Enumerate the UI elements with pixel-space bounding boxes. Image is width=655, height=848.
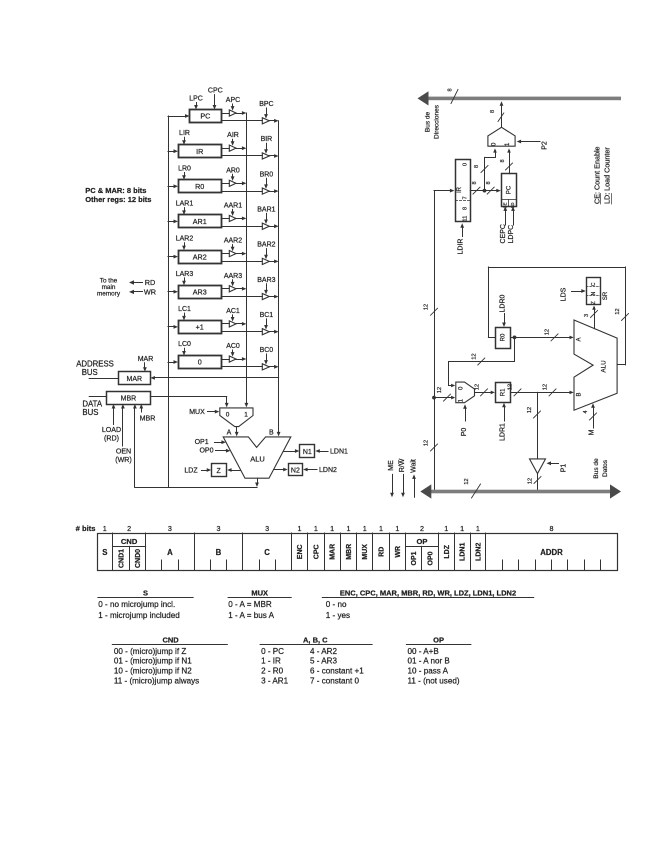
svg-text:1: 1 [347, 524, 351, 533]
signal OEN (WR) [115, 404, 132, 464]
wire ALU to N1 [283, 449, 299, 453]
load signal LDIR [458, 223, 465, 254]
svg-text:N2: N2 [291, 468, 300, 475]
field ENC [297, 544, 304, 559]
field ADDR [540, 548, 563, 557]
svg-text:S: S [143, 588, 148, 597]
label B input [269, 430, 274, 437]
svg-text:MUX: MUX [362, 544, 369, 560]
note to the main memory [97, 277, 121, 297]
svg-text:0 - no microjump incl.: 0 - no microjump incl. [98, 600, 175, 609]
tri-state buffer APC (register PC to bus A) [229, 110, 236, 116]
select signal P0 [461, 404, 468, 436]
svg-text:A: A [167, 548, 173, 557]
svg-text:1: 1 [103, 524, 107, 533]
enable signal AR0 [226, 167, 240, 181]
svg-text:LDR0: LDR0 [500, 294, 507, 312]
svg-text:MUX: MUX [251, 588, 268, 597]
svg-text:10 - pass A: 10 - pass A [408, 667, 449, 676]
tri-state buffer BC0 (register 0 to bus B) [262, 364, 269, 370]
wire MBR to data bus [89, 396, 106, 398]
tri-state buffer AC0 (register 0 to bus A) [229, 356, 236, 362]
svg-text:R0: R0 [195, 182, 204, 191]
svg-text:LDIR: LDIR [458, 239, 465, 255]
signal Wait [410, 459, 417, 497]
ALU right [574, 320, 617, 410]
svg-text:LAR1: LAR1 [176, 200, 194, 207]
wire data bus to IR (vertical 12-bit) [424, 191, 438, 490]
load signal MAR [138, 356, 154, 372]
signal OP1 [195, 439, 226, 446]
tri-state buffer BPC (register PC to bus B) [262, 118, 269, 124]
bus Bus de Datos [420, 478, 621, 498]
node data line to P0 mux junction [432, 396, 436, 400]
svg-text:(RD): (RD) [104, 435, 119, 443]
field OP1 [411, 551, 418, 565]
ALU [223, 437, 291, 478]
svg-text:LDN1: LDN1 [330, 449, 348, 456]
enable signal APC [226, 97, 240, 111]
svg-text:LDN1: LDN1 [460, 543, 467, 561]
signal LDN1 [315, 449, 348, 456]
register AR1 [179, 215, 222, 228]
svg-text:CE: Count EnableLD: Load Count: CE: Count EnableLD: Load Counter [592, 146, 611, 204]
load signal LIR [179, 130, 190, 145]
enable signal BAR3 [257, 277, 275, 295]
field divider RD/WR [389, 533, 391, 571]
wire register R0 to buffer AR0 [221, 183, 229, 185]
wire input to register AR1 [168, 220, 178, 224]
load signal LDR0 [500, 294, 507, 327]
svg-text:(WR): (WR) [115, 456, 132, 464]
field divider LDN2/ADDR [485, 533, 487, 571]
wire register IR to buffer AIR [221, 148, 229, 150]
register R0 [496, 328, 511, 349]
wire R1 line to P1 buffer [527, 392, 541, 459]
signal OP0 [199, 447, 230, 454]
svg-text:RD: RD [145, 278, 156, 287]
svg-text:LC0: LC0 [178, 341, 191, 348]
svg-text:7: 7 [463, 196, 469, 199]
signal LDZ [184, 468, 211, 475]
svg-text:00 - (micro)jump if Z: 00 - (micro)jump if Z [114, 647, 186, 656]
bit count for CND [127, 524, 131, 533]
svg-text:BC1: BC1 [260, 312, 274, 319]
svg-text:A, B, C: A, B, C [303, 635, 328, 644]
svg-text:LPC: LPC [189, 96, 203, 103]
svg-text:PC & MAR: 8 bits: PC & MAR: 8 bits [85, 186, 146, 195]
load signal LAR3 [176, 271, 194, 285]
wire buffer AC1 to bus A [236, 322, 246, 326]
svg-text:BC0: BC0 [260, 347, 274, 354]
svg-text:MAR: MAR [330, 544, 337, 560]
svg-text:OP1: OP1 [195, 439, 209, 446]
signal M (ALU operation select) [583, 403, 597, 435]
svg-text:8: 8 [500, 159, 506, 162]
field RD [379, 547, 386, 557]
load signal LC0 [178, 341, 191, 356]
svg-text:OEN: OEN [116, 448, 131, 456]
svg-text:BAR3: BAR3 [257, 277, 275, 284]
field S [102, 548, 107, 557]
enable signal AAR3 [224, 273, 242, 287]
legend CE LD meaning [592, 146, 611, 204]
wire R0 output to P0 mux input 0 [449, 337, 515, 387]
bit count for S [103, 524, 107, 533]
bus Bus de Direcciones [418, 88, 622, 105]
svg-text:R0: R0 [500, 333, 506, 341]
label Bus de Datos [593, 458, 609, 479]
wire data bus to IR [434, 189, 454, 193]
field WR [395, 546, 402, 558]
field group header CND [113, 537, 146, 547]
svg-text:AAR2: AAR2 [224, 238, 242, 245]
svg-text:8: 8 [463, 207, 469, 210]
svg-text:LR0: LR0 [178, 165, 191, 172]
wire input to register PC [168, 114, 190, 118]
svg-text:AIR: AIR [227, 132, 239, 139]
svg-text:B: B [576, 392, 582, 396]
select signal P2 [517, 140, 549, 150]
tri-state buffer AAR3 (register AR3 to bus A) [229, 286, 236, 292]
field divider MUX/RD [372, 533, 374, 571]
svg-text:BPC: BPC [259, 101, 273, 108]
status register SR (Z N C) [586, 278, 609, 305]
svg-text:Other regs: 12 bits: Other regs: 12 bits [85, 195, 151, 204]
svg-text:MBR: MBR [346, 544, 353, 560]
tri-state buffer BAR3 (register AR3 to bus B) [262, 293, 269, 299]
wire register PC to buffer BPC [221, 120, 262, 122]
enable signal AAR1 [224, 202, 242, 216]
svg-text:M: M [589, 429, 596, 435]
label Bus de Direcciones [425, 104, 441, 139]
field divider ENC/CPC [307, 533, 309, 571]
svg-text:1: 1 [314, 524, 318, 533]
svg-text:LAR2: LAR2 [176, 236, 194, 243]
wire register 0 to buffer BC0 [221, 366, 262, 368]
tri-state buffer AAR2 (register AR2 to bus A) [229, 251, 236, 257]
svg-text:12: 12 [475, 384, 481, 390]
wire input to register 0 [168, 360, 178, 364]
signal ME [388, 460, 395, 497]
svg-text:IR: IR [196, 147, 203, 156]
svg-text:ENC: ENC [297, 544, 304, 559]
svg-text:0 - A = MBR: 0 - A = MBR [228, 600, 272, 609]
field divider A/B [194, 533, 196, 571]
load signal LDR1 [500, 403, 507, 441]
field divider OP1/OP0 [421, 546, 423, 570]
enable signal AC1 [226, 308, 240, 322]
wire P1 buffer to data bus [528, 474, 542, 490]
svg-text:LD: LD [510, 203, 515, 209]
bit count for MAR [330, 524, 334, 533]
label DATA BUS [82, 400, 102, 418]
wire buffer AAR2 to bus A [236, 252, 246, 256]
svg-text:BAR1: BAR1 [257, 207, 275, 214]
svg-text:S: S [102, 548, 107, 557]
field divider B/C [242, 533, 244, 571]
bit count for MUX [363, 524, 367, 533]
svg-text:0: 0 [198, 358, 202, 367]
field divider LDN1/LDN2 [470, 533, 472, 571]
svg-text:CND0: CND0 [135, 549, 142, 568]
svg-text:1: 1 [298, 524, 302, 533]
wire input to register AR2 [168, 255, 178, 259]
bit count for ENC [298, 524, 302, 533]
wire buffer BPC to bus B [269, 119, 278, 123]
svg-text:Wait: Wait [410, 459, 417, 473]
svg-text:4: 4 [583, 410, 589, 413]
wire R0 to ALU input A [515, 329, 574, 341]
wire P0 mux to R1 [475, 384, 495, 396]
wire buffer BIR to bus B [269, 154, 278, 158]
wire buffer BAR3 to bus B [269, 295, 278, 299]
tri-state buffer BAR2 (register AR2 to bus B) [262, 258, 269, 264]
svg-text:N: N [591, 291, 597, 295]
svg-text:R1: R1 [500, 388, 506, 396]
register R1 [496, 383, 511, 403]
svg-text:B: B [216, 548, 222, 557]
svg-text:LDS: LDS [561, 287, 568, 301]
svg-text:12: 12 [527, 407, 533, 413]
enable signal BIR [261, 136, 273, 154]
legend MUX [228, 588, 292, 620]
svg-text:7 - constant 0: 7 - constant 0 [310, 677, 360, 686]
svg-text:1 - microjump included: 1 - microjump included [98, 611, 179, 620]
field CND1 [118, 549, 125, 568]
svg-text:ADDR: ADDR [540, 548, 563, 557]
svg-text:8: 8 [472, 181, 478, 184]
wire MBR to MUX input 0 [150, 397, 228, 408]
svg-text:IR: IR [457, 186, 463, 193]
svg-text:memory: memory [97, 291, 121, 298]
svg-text:AR3: AR3 [193, 287, 207, 296]
field divider OP0/LDZ [438, 533, 440, 571]
svg-text:OP0: OP0 [428, 551, 435, 565]
wire buffer BAR1 to bus B [269, 224, 278, 228]
field divider MAR/MBR [340, 533, 342, 571]
svg-text:5 - AR3: 5 - AR3 [310, 657, 337, 666]
svg-text:C: C [264, 548, 270, 557]
svg-text:LDN2: LDN2 [475, 543, 482, 561]
wire ALU to N2 [274, 468, 288, 472]
wire buffer AAR3 to bus A [236, 287, 246, 291]
svg-text:01 - (micro)jump if N1: 01 - (micro)jump if N1 [114, 657, 192, 666]
tri-state buffer BAR1 (register AR1 to bus B) [262, 223, 269, 229]
field MBR [346, 544, 353, 560]
wire input to register +1 [168, 325, 178, 329]
svg-text:1: 1 [395, 524, 399, 533]
wire register AR3 to buffer BAR3 [221, 296, 262, 298]
svg-text:ENC, CPC, MAR, MBR, RD, WR, LD: ENC, CPC, MAR, MBR, RD, WR, LDZ, LDN1, L… [340, 588, 516, 597]
field divider WR/OP1 [405, 533, 407, 571]
svg-text:8: 8 [486, 181, 492, 184]
wire MAR to address bus [89, 378, 118, 380]
svg-text:00 - A+B: 00 - A+B [408, 647, 439, 656]
label ADDRESS BUS [76, 360, 114, 378]
svg-text:12: 12 [424, 304, 430, 310]
wire ALU to Z [227, 468, 240, 472]
enable signal AIR [227, 132, 239, 146]
svg-text:CND: CND [121, 537, 138, 546]
svg-text:A: A [576, 337, 582, 341]
svg-text:LOAD: LOAD [102, 426, 121, 434]
field B [216, 548, 222, 557]
wire ALU flags to SR [584, 306, 598, 329]
field OP0 [428, 551, 435, 565]
svg-text:BR0: BR0 [260, 171, 274, 178]
svg-text:LDPC: LDPC [508, 225, 515, 244]
svg-text:RD: RD [379, 547, 386, 557]
svg-text:10 - (micro)jump if N2: 10 - (micro)jump if N2 [114, 667, 192, 676]
svg-text:1: 1 [379, 524, 383, 533]
enable signal BR0 [260, 171, 274, 189]
wire buffer BR0 to bus B [269, 189, 278, 193]
select signal MUX [189, 409, 219, 416]
svg-text:1: 1 [244, 411, 248, 418]
svg-text:2: 2 [420, 524, 424, 533]
multiplexer P0 mux [456, 382, 475, 403]
svg-text:AAR1: AAR1 [224, 202, 242, 209]
legend ENC CPC MAR MBR RD WR LDZ LDN1 LDN2 [322, 588, 534, 620]
svg-text:3: 3 [584, 314, 590, 317]
svg-text:1: 1 [460, 524, 464, 533]
svg-text:OP: OP [417, 537, 428, 546]
svg-text:ME: ME [388, 460, 395, 471]
svg-text:ALU: ALU [601, 360, 608, 373]
wire register AR3 to buffer AAR3 [221, 288, 229, 290]
wire MUX output A [227, 427, 239, 437]
bit count for LDN2 [476, 524, 480, 533]
wire IR to PC (low byte) [470, 181, 501, 194]
svg-text:# bits: # bits [76, 524, 96, 533]
register +1 [179, 321, 222, 334]
wire buffer AAR1 to bus A [236, 217, 246, 221]
flag register Z [212, 464, 227, 477]
wire data line to P0 mux input 1 [434, 387, 455, 401]
svg-text:4 - AR2: 4 - AR2 [310, 647, 337, 656]
bit count for OP [420, 524, 424, 533]
load signal LAR1 [176, 200, 194, 215]
svg-text:PC: PC [200, 112, 210, 121]
wire buffer AC0 to bus A [236, 357, 246, 361]
svg-text:11 - (not used): 11 - (not used) [408, 677, 460, 686]
field LDN1 [460, 543, 467, 561]
svg-text:AAR3: AAR3 [224, 273, 242, 280]
svg-text:LDN2: LDN2 [319, 467, 337, 474]
svg-text:12: 12 [472, 353, 478, 359]
signal LDPC [508, 206, 515, 243]
svg-text:P1: P1 [561, 464, 568, 473]
wire buffer BAR2 to bus B [269, 260, 278, 264]
bit count for CPC [314, 524, 318, 533]
multiplexer MUX [220, 408, 253, 427]
wire buffer AIR to bus A [236, 146, 246, 150]
bit count for LDN1 [460, 524, 464, 533]
field MUX [362, 544, 369, 560]
enable signal BC0 [260, 347, 274, 365]
enable signal BAR1 [257, 207, 275, 225]
count signal CPC [208, 88, 223, 110]
enable signal AC0 [226, 343, 240, 357]
svg-text:2 - R0: 2 - R0 [261, 667, 284, 676]
svg-text:3 - AR1: 3 - AR1 [261, 677, 288, 686]
tri-state buffer AC1 (register +1 to bus A) [229, 321, 236, 327]
svg-text:8: 8 [474, 165, 480, 168]
enable signal BPC [259, 101, 273, 119]
wire input to register AR3 [168, 290, 178, 294]
enable signal AAR2 [224, 238, 242, 252]
wire ALU output to MBR [133, 404, 137, 487]
svg-text:WR: WR [144, 288, 156, 297]
svg-text:OP1: OP1 [411, 551, 418, 565]
wire buffer BC1 to bus B [269, 330, 278, 334]
svg-text:AC1: AC1 [226, 308, 240, 315]
svg-text:0: 0 [226, 411, 230, 418]
svg-text:WR: WR [395, 546, 402, 558]
svg-text:BAR2: BAR2 [257, 242, 275, 249]
svg-text:APC: APC [226, 97, 240, 104]
wire register AR1 to buffer BAR1 [221, 226, 262, 228]
wire input to register R0 [168, 184, 178, 188]
load signal LC1 [178, 306, 191, 321]
wire R1 to ALU input B [508, 384, 574, 396]
note PC and MAR width [85, 186, 151, 204]
wire IR to P2 mux input 0 [474, 148, 497, 190]
svg-text:6 - constant +1: 6 - constant +1 [310, 667, 364, 676]
svg-text:P0: P0 [461, 428, 468, 437]
svg-text:LDZ: LDZ [184, 468, 198, 475]
svg-text:BUS: BUS [82, 408, 98, 417]
field divider CPC/MAR [324, 533, 326, 571]
wire register AR2 to buffer AAR2 [221, 253, 229, 255]
wire bus B to MAR [150, 376, 278, 380]
signal LDN2 [303, 467, 337, 474]
enable signal BAR2 [257, 242, 275, 260]
field divider CND1/CND0 [129, 546, 131, 570]
tri-state buffer BR0 (register R0 to bus B) [262, 188, 269, 194]
svg-text:LDZ: LDZ [444, 544, 451, 558]
register 0 [179, 356, 222, 369]
svg-text:BIR: BIR [261, 136, 273, 143]
svg-text:AR2: AR2 [193, 252, 207, 261]
svg-text:1: 1 [363, 524, 367, 533]
svg-text:OP0: OP0 [199, 447, 213, 454]
svg-text:CEPC: CEPC [500, 224, 507, 243]
node IR output junction [483, 189, 487, 193]
flag register N1 [300, 445, 315, 458]
bit ticks in field ADDR [503, 560, 601, 571]
svg-text:Z: Z [591, 301, 597, 304]
wire register 0 to buffer AC0 [221, 359, 229, 361]
svg-text:1 - A = bus A: 1 - A = bus A [228, 611, 274, 620]
svg-text:CND: CND [162, 635, 179, 644]
svg-text:11: 11 [463, 216, 469, 222]
wire ALU output [135, 478, 259, 487]
legend A B C [260, 635, 373, 685]
svg-text:CND1: CND1 [118, 549, 125, 568]
wire register AR1 to buffer AAR1 [221, 218, 229, 220]
svg-text:01 - A nor B: 01 - A nor B [408, 657, 450, 666]
wire register PC to buffer APC [221, 113, 229, 115]
microinstruction format table outline [98, 534, 618, 571]
svg-text:1: 1 [330, 524, 334, 533]
bit count for A [168, 524, 172, 533]
wire PC to P2 mux input 1 [500, 148, 513, 173]
svg-text:N1: N1 [303, 449, 312, 456]
wire ALU output feedback to R0 [488, 267, 628, 365]
wire P2 mux to address bus [490, 101, 504, 127]
